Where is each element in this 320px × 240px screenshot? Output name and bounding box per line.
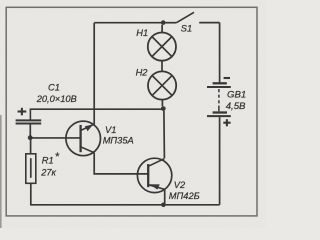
capacitor C1 (16, 108, 42, 124)
wire: right rail, S1 to GB1 minus (219, 23, 221, 83)
transistor V1 (NPN) (66, 121, 101, 156)
svg-text:GB1: GB1 (227, 90, 246, 101)
wire: R1 top lead (30, 140, 32, 154)
junction dot: lamp branch / C1 coupling node (161, 106, 166, 111)
junction dot: V2 emitter at bottom rail (161, 203, 166, 208)
resistor R1 (26, 154, 36, 184)
svg-text:V2: V2 (174, 180, 186, 190)
svg-text:С1: С1 (48, 82, 60, 92)
svg-text:V1: V1 (105, 125, 116, 135)
wire: GB1 plus to bottom rail (219, 117, 221, 205)
wire: junction down to V2 collector (163, 111, 166, 158)
svg-text:S1: S1 (181, 23, 192, 33)
svg-text:МП35А: МП35А (103, 136, 134, 146)
wire: H1 to H2 (161, 61, 163, 72)
svg-text:Н2: Н2 (136, 67, 149, 77)
switch S1 (open blade) (163, 12, 219, 22)
wire: V2 emitter to bottom rail (164, 189, 166, 204)
svg-text:27к: 27к (40, 168, 56, 178)
lamp H2 (148, 71, 176, 99)
battery GB1 (207, 78, 231, 126)
svg-text:4,5В: 4,5В (226, 101, 246, 112)
wire: top rail (V1 emitter corner to lamp junction) (94, 22, 163, 24)
junction dot: top rail / lamp branch (161, 20, 166, 25)
svg-text:R1: R1 (42, 155, 54, 165)
wire: V1 base wire (30, 137, 80, 139)
junction dot: C1 / R1 / V1 base node (28, 135, 33, 140)
lamp H1 (148, 33, 176, 61)
wire: H2 to lamp-branch junction (161, 100, 163, 107)
svg-text:20,0×10В: 20,0×10В (36, 94, 77, 104)
wire: bottom rail (30, 204, 220, 206)
svg-text:*: * (55, 151, 60, 163)
svg-text:Н1: Н1 (136, 28, 148, 38)
transistor V2 (PNP) (137, 158, 171, 192)
svg-text:МП42Б: МП42Б (169, 191, 200, 201)
wire: V1 emitter rail (top rail down to V1, crosses coupling wire) (93, 23, 95, 125)
wire: V1 collector down and over to V2 base (94, 153, 148, 174)
wire: C1 coupling wire to lamp junction (30, 109, 163, 120)
wire: R1 bottom lead (30, 183, 32, 205)
wire: C1 bottom plate to base node (29, 125, 31, 137)
wire: lamp H1 top lead (161, 25, 163, 33)
